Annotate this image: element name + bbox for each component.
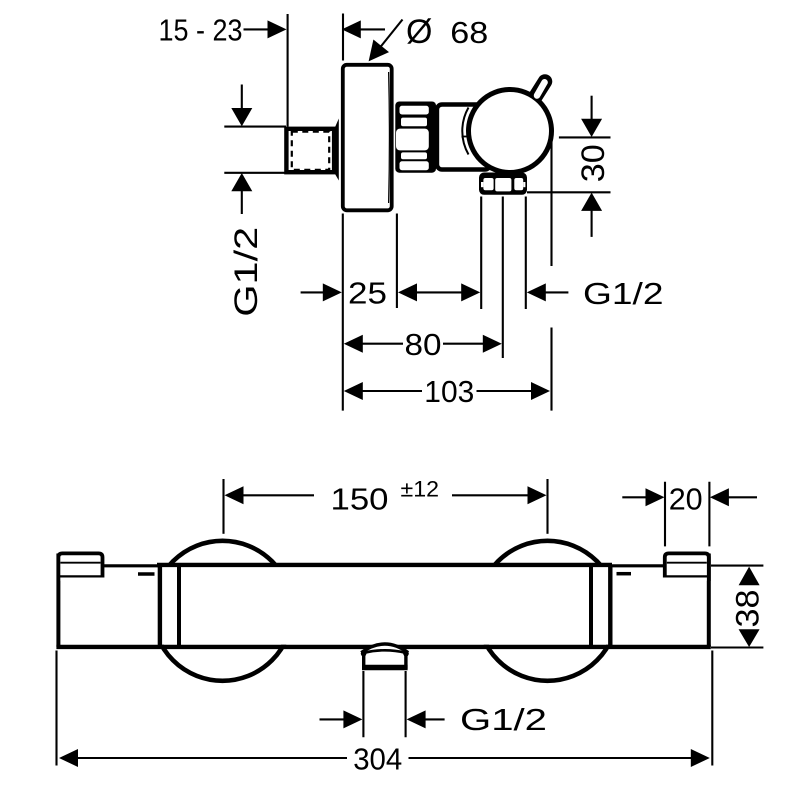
- label G1/2 (bottom): [460, 702, 547, 737]
- dim 30 upper arrow: [581, 96, 602, 137]
- valve body: [437, 105, 490, 170]
- dim 80: [344, 327, 502, 362]
- neck between union and escutcheon: [335, 119, 339, 181]
- extension line from handle right edge: [550, 142, 552, 411]
- dim 20 left arrow: [622, 488, 664, 506]
- dim 150 right extension line: [546, 479, 548, 534]
- dim 20 right arrow: [710, 488, 757, 506]
- thermostat handle (circle): [469, 90, 552, 173]
- extension line from outlet center: [502, 197, 504, 359]
- right joint lines on bar: [591, 565, 610, 646]
- dim 38 reference lines: [711, 566, 763, 648]
- dim 25 right arrow / G1/2 left arrow (shared tail): [398, 283, 480, 301]
- dim 15-23 right extension line: [342, 14, 344, 61]
- dim 150 label: [331, 477, 440, 517]
- right handle circle: [478, 541, 618, 681]
- handle grip stub (outer): [527, 82, 545, 111]
- svg-text:25: 25: [348, 276, 387, 311]
- svg-text:38: 38: [730, 590, 766, 628]
- svg-text:20: 20: [669, 481, 703, 516]
- dim 304: [59, 741, 710, 776]
- label 38 (rotated): [730, 590, 766, 628]
- dim O68 leader arrow: [369, 20, 403, 62]
- dim O68 label: [406, 13, 488, 51]
- union height up arrow: [231, 173, 252, 214]
- label 30 (rotated): [575, 144, 611, 182]
- dim 150 left extension line: [222, 479, 224, 534]
- dim 20 extension lines: [665, 482, 709, 547]
- svg-text:G1/2: G1/2: [583, 276, 664, 311]
- dim 20 label: [669, 481, 703, 516]
- extension line from flange right edge: [396, 214, 398, 309]
- svg-text:150: 150: [331, 482, 389, 517]
- svg-text:80: 80: [405, 327, 442, 362]
- dim 25 label: [348, 276, 387, 311]
- dim 25 left arrow: [301, 283, 342, 301]
- union top reference line: [224, 126, 286, 128]
- escutcheon flange (O68): [343, 65, 392, 211]
- extension line from flange left edge: [342, 214, 344, 411]
- dim 15-23 right arrow: [342, 20, 385, 38]
- union bottom reference line: [224, 172, 286, 174]
- dim G1/2 (outlet) right arrow: [527, 283, 569, 301]
- dim 30 lower arrow: [581, 193, 602, 237]
- bar top edge: [103, 563, 667, 567]
- dim 30 upper reference line: [559, 136, 611, 138]
- svg-text:68: 68: [450, 15, 488, 50]
- bar bottom edge: [56, 645, 710, 649]
- extension line from outlet left edge: [480, 197, 482, 310]
- right wall block: [665, 553, 709, 581]
- svg-text:G1/2: G1/2: [460, 702, 547, 737]
- dim 15-23 left extension line: [287, 14, 289, 127]
- left wall block: [58, 553, 102, 581]
- left handle circle: [153, 541, 293, 681]
- dim 30 lower reference line (outlet bottom extension): [527, 191, 611, 193]
- svg-text:30: 30: [575, 144, 611, 182]
- bar left end edge: [56, 554, 60, 647]
- dim 38 arrows: [739, 567, 760, 647]
- dim G1/2 lower right arrow: [407, 710, 445, 728]
- dim G1/2 lower extension lines: [363, 671, 405, 737]
- dim 150 arrows and line: [225, 486, 547, 504]
- cartridge silhouette arc behind handle: [462, 108, 469, 155]
- label G1/2 (right): [583, 276, 664, 311]
- dim 304 extension lines: [57, 651, 713, 766]
- left tick on bar: [138, 572, 155, 576]
- dim 103: [344, 374, 550, 409]
- union height down arrow: [231, 85, 252, 127]
- svg-text:Ø: Ø: [406, 13, 432, 51]
- svg-text:G1/2: G1/2: [228, 227, 264, 317]
- dim G1/2 lower left arrow: [320, 710, 363, 728]
- svg-text:15 - 23: 15 - 23: [159, 12, 243, 47]
- outlet dome below bar: [361, 644, 408, 653]
- outlet nut below handle: [479, 173, 527, 195]
- dim 15-23 left arrow: [244, 20, 287, 38]
- wall union (threaded inlet block): [286, 129, 334, 172]
- svg-text:103: 103: [424, 374, 474, 409]
- extension line from outlet right edge: [525, 197, 527, 310]
- svg-text:304: 304: [353, 741, 402, 776]
- outlet nut below bar: [361, 650, 409, 669]
- label G1/2 (left, rotated): [228, 227, 264, 317]
- coupling nut on valve inlet: [395, 102, 436, 173]
- wall union internal thread (dashed): [292, 132, 329, 170]
- svg-text:±12: ±12: [401, 477, 440, 502]
- bar body mask: [57, 567, 711, 645]
- right tick on bar: [617, 572, 632, 576]
- dim 15-23 text: [159, 12, 243, 47]
- bar right end edge: [707, 554, 711, 647]
- handle grip stub (channel): [537, 82, 545, 95]
- left joint lines on bar: [160, 565, 179, 646]
